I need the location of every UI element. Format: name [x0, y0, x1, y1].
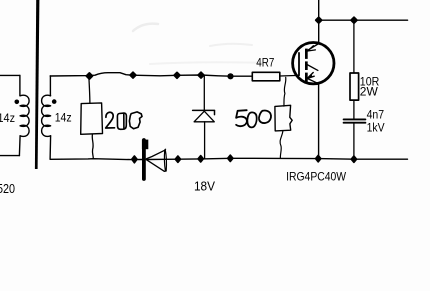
node dot bottom rail E: [316, 155, 321, 161]
wire primary stem top: [19, 75, 21, 95]
transformer core: [35, 0, 40, 169]
resistor 500: [275, 105, 292, 131]
IGBT Q1 channel dash 1: [305, 49, 308, 59]
wire 500 resistor bottom lead: [280, 131, 283, 158]
node dot collector rail B: [351, 17, 357, 23]
node dot bottom rail A: [132, 156, 137, 163]
wire 10R top lead: [353, 20, 355, 73]
label 500 digit 0b: [259, 111, 271, 124]
wire gate lead: [280, 74, 299, 77]
node dot top rail D: [198, 72, 204, 78]
diode D1 cathode blob: [142, 140, 148, 150]
phase dot secondary: [52, 99, 57, 104]
primary winding 14z: [20, 95, 29, 136]
wire 200 resistor bottom lead: [92, 134, 93, 158]
diode D1 cathode bar: [142, 140, 146, 179]
IGBT Q1 middle diagonal: [307, 65, 318, 71]
wire 10R bottom lead: [353, 100, 355, 119]
wire bottom rail: [50, 158, 407, 159]
svg-text:4n7: 4n7: [367, 109, 385, 121]
node dot top rail C: [174, 72, 180, 78]
diode D1 triangle top edge: [146, 150, 164, 159]
wire emitter: [318, 84, 320, 159]
diode D1 triangle bottom edge: [146, 160, 164, 172]
node dot collector rail A: [316, 17, 322, 23]
label 200 digit 0a: [117, 113, 126, 129]
svg-text:2W: 2W: [360, 87, 378, 99]
IGBT Q1 emitter diagonal: [307, 78, 319, 83]
capacitor 4n7 plates: [344, 119, 366, 122]
node dot top rail E: [227, 73, 233, 79]
wire primary stem bottom: [18, 136, 21, 156]
svg-text:14z: 14z: [55, 113, 72, 125]
resistor 200: [81, 103, 103, 134]
faint scan smudges (decorative): [133, 24, 158, 31]
node dot bottom rail C: [198, 156, 203, 162]
secondary winding 14z: [42, 95, 51, 136]
wire capacitor bottom lead: [353, 123, 355, 159]
IGBT Q1 gate bar: [298, 53, 300, 75]
IGBT Q1 collector diagonal: [308, 43, 319, 50]
zener diode 18V cathode bar: [193, 110, 215, 114]
IGBT Q1 channel dash 2: [305, 61, 308, 70]
wire top right rail: [319, 19, 408, 21]
node dot top rail A: [86, 73, 92, 79]
svg-text:14z: 14z: [0, 113, 15, 125]
label 500 digit 0a: [247, 112, 256, 127]
resistor 10R: [350, 73, 359, 100]
resistor 4R7: [252, 72, 279, 81]
svg-text:IRG4PC40W: IRG4PC40W: [286, 170, 347, 184]
phase dot primary: [14, 100, 19, 105]
wire primary top lead: [0, 74, 20, 76]
wire collector: [318, 0, 320, 43]
wire zener top lead: [203, 75, 205, 110]
wire top rail: [50, 73, 252, 77]
svg-text:520: 520: [0, 181, 15, 196]
node dot bottom rail D: [228, 155, 233, 161]
IGBT Q1 channel dash 3: [305, 73, 308, 82]
node dot top rail B: [130, 72, 136, 78]
wire secondary stem bottom: [49, 136, 52, 159]
zener diode 18V triangle: [194, 111, 214, 122]
wire zener bottom lead: [204, 122, 206, 159]
svg-text:1kV: 1kV: [367, 123, 385, 135]
diode D1 triangle right side: [164, 149, 166, 171]
wire 500 resistor top lead: [284, 77, 286, 106]
wire secondary stem top: [49, 76, 51, 96]
IGBT Q1 collector arrow: [308, 46, 316, 51]
node dot bottom rail B: [175, 156, 180, 162]
wire primary bottom lead: [0, 155, 19, 157]
IGBT Q1 body circle: [293, 43, 334, 84]
label 500 digit 5: [236, 110, 247, 126]
IGBT Q1 emitter arrow: [307, 73, 314, 79]
label 200 digit 2: [106, 112, 115, 128]
svg-text:4R7: 4R7: [256, 58, 274, 70]
node dot bottom rail F: [351, 156, 356, 162]
svg-text:18V: 18V: [194, 178, 215, 193]
label 200 digit 0b: [129, 112, 142, 129]
wire 200 resistor top lead: [89, 76, 90, 104]
